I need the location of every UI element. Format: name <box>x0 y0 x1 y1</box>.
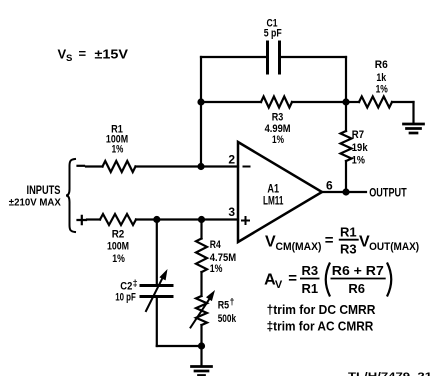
wire R7 top <box>345 102 347 131</box>
minus sign op-amp <box>244 166 250 168</box>
capacitor C1 plate right <box>278 42 281 73</box>
plus sign input <box>78 216 87 224</box>
capacitor C1 plate left <box>266 42 269 73</box>
svg-text:‡: ‡ <box>133 278 138 288</box>
svg-text:INPUTS: INPUTS <box>27 183 61 197</box>
svg-text:1%: 1% <box>210 263 223 275</box>
capacitor C2 plate bottom <box>141 295 172 298</box>
wire top left segment to C1 <box>201 56 267 58</box>
node junction R4 tap <box>198 216 205 223</box>
resistor R5 trimmer arrow <box>191 297 212 328</box>
svg-text:1%: 1% <box>352 154 365 166</box>
svg-text:=: = <box>325 232 334 249</box>
svg-text:OUT(MAX): OUT(MAX) <box>369 241 419 253</box>
wire left feedback vertical <box>200 57 202 167</box>
svg-text:6: 6 <box>326 179 333 193</box>
wire R4 top <box>200 220 202 239</box>
svg-text:†trim for DC CMRR: †trim for DC CMRR <box>267 302 376 317</box>
capacitor C2 trimmer arrow <box>146 276 164 311</box>
resistor R1 <box>103 161 136 172</box>
wire inverting input row left <box>86 165 103 167</box>
svg-text:R2: R2 <box>112 229 125 241</box>
svg-text:V: V <box>275 279 283 291</box>
wire C1 to right corner <box>281 56 347 58</box>
wire C2 branch lower <box>156 298 158 347</box>
capacitor C2 plate top <box>141 284 172 287</box>
node junction C2 tap <box>153 216 160 223</box>
svg-text:R3: R3 <box>340 242 357 257</box>
svg-text:V: V <box>265 234 276 251</box>
input brace <box>66 159 75 232</box>
svg-text:R3: R3 <box>302 263 319 278</box>
svg-text:2: 2 <box>228 152 235 166</box>
svg-text:R1: R1 <box>302 281 319 296</box>
svg-text:LM11: LM11 <box>263 193 284 207</box>
wire R4 to R5 <box>200 272 202 296</box>
resistor R2 <box>100 214 136 225</box>
wire right vertical C1 to R3 node <box>345 57 347 102</box>
svg-text:R6 + R7: R6 + R7 <box>332 263 384 278</box>
svg-text:=: = <box>288 270 297 287</box>
wire R6 zigzag to corner <box>392 101 414 103</box>
wire R6 node to zigzag <box>346 101 359 103</box>
wire noninverting input row right <box>136 218 238 220</box>
svg-text:R5: R5 <box>218 299 229 311</box>
svg-text:5 pF: 5 pF <box>264 28 282 40</box>
svg-text:3: 3 <box>228 205 235 219</box>
label VS supply <box>58 46 129 64</box>
svg-text:100M: 100M <box>107 241 129 253</box>
op-amp A1 triangle <box>238 142 322 242</box>
svg-text:500k: 500k <box>218 313 237 325</box>
svg-text:R3: R3 <box>272 111 284 123</box>
svg-text:†: † <box>230 297 235 307</box>
svg-text:4.75M: 4.75M <box>210 252 236 264</box>
svg-text:S: S <box>66 53 72 64</box>
wire inverting input row right <box>136 165 239 167</box>
wire R3 row right <box>292 101 346 103</box>
svg-text:R1: R1 <box>340 224 357 239</box>
svg-text:19k: 19k <box>352 142 369 154</box>
svg-text:1%: 1% <box>376 83 388 95</box>
wire R3 row left <box>201 101 261 103</box>
node junction R3 left <box>197 98 204 105</box>
wire noninverting input row left <box>87 218 100 220</box>
wire R5 bottom <box>200 325 202 346</box>
wire C2 bottom horizontal <box>157 345 202 347</box>
svg-text:1%: 1% <box>112 253 125 265</box>
wire R6 corner down to ground <box>412 102 414 123</box>
ground right of R6 <box>404 124 424 133</box>
wire output <box>322 191 366 193</box>
wire C2 branch upper <box>156 220 158 285</box>
svg-text:R6: R6 <box>348 281 365 296</box>
svg-text:TL/H/7479–21: TL/H/7479–21 <box>348 371 432 376</box>
svg-text:C2: C2 <box>120 280 132 292</box>
node junction ground bottom <box>198 342 205 349</box>
svg-text:1%: 1% <box>272 134 284 146</box>
minus sign input <box>78 165 85 167</box>
resistor R6 <box>359 97 392 108</box>
ground bottom <box>192 367 212 376</box>
resistor R4 <box>196 239 207 273</box>
svg-text:±15V: ±15V <box>95 47 129 62</box>
svg-text:1%: 1% <box>112 143 124 155</box>
formula AV gain <box>264 263 391 297</box>
svg-text:CM(MAX): CM(MAX) <box>276 241 322 253</box>
svg-text:1k: 1k <box>376 72 386 84</box>
svg-text:R7: R7 <box>352 129 364 141</box>
arrowhead R5 <box>206 290 215 301</box>
svg-text:R6: R6 <box>375 59 388 71</box>
svg-text:±210V MAX: ±210V MAX <box>9 197 61 209</box>
arrowhead C2 <box>159 269 167 280</box>
node junction output <box>342 188 349 195</box>
wire R7 bottom <box>345 161 347 192</box>
resistor R5 trimmer <box>196 296 207 325</box>
wire ground drop bottom <box>200 346 202 366</box>
svg-text:R4: R4 <box>210 239 222 251</box>
node junction inverting input <box>197 163 204 170</box>
resistor R3 <box>261 97 292 108</box>
resistor R7 <box>341 131 352 161</box>
plus sign op-amp <box>242 217 249 224</box>
svg-text:=: = <box>79 46 87 61</box>
svg-text:OUTPUT: OUTPUT <box>369 188 407 200</box>
node junction R3/R6/R7 <box>342 98 349 105</box>
svg-text:‡trim for AC CMRR: ‡trim for AC CMRR <box>267 319 374 334</box>
formula VCM(MAX) <box>265 224 419 256</box>
svg-text:10 pF: 10 pF <box>115 292 136 304</box>
